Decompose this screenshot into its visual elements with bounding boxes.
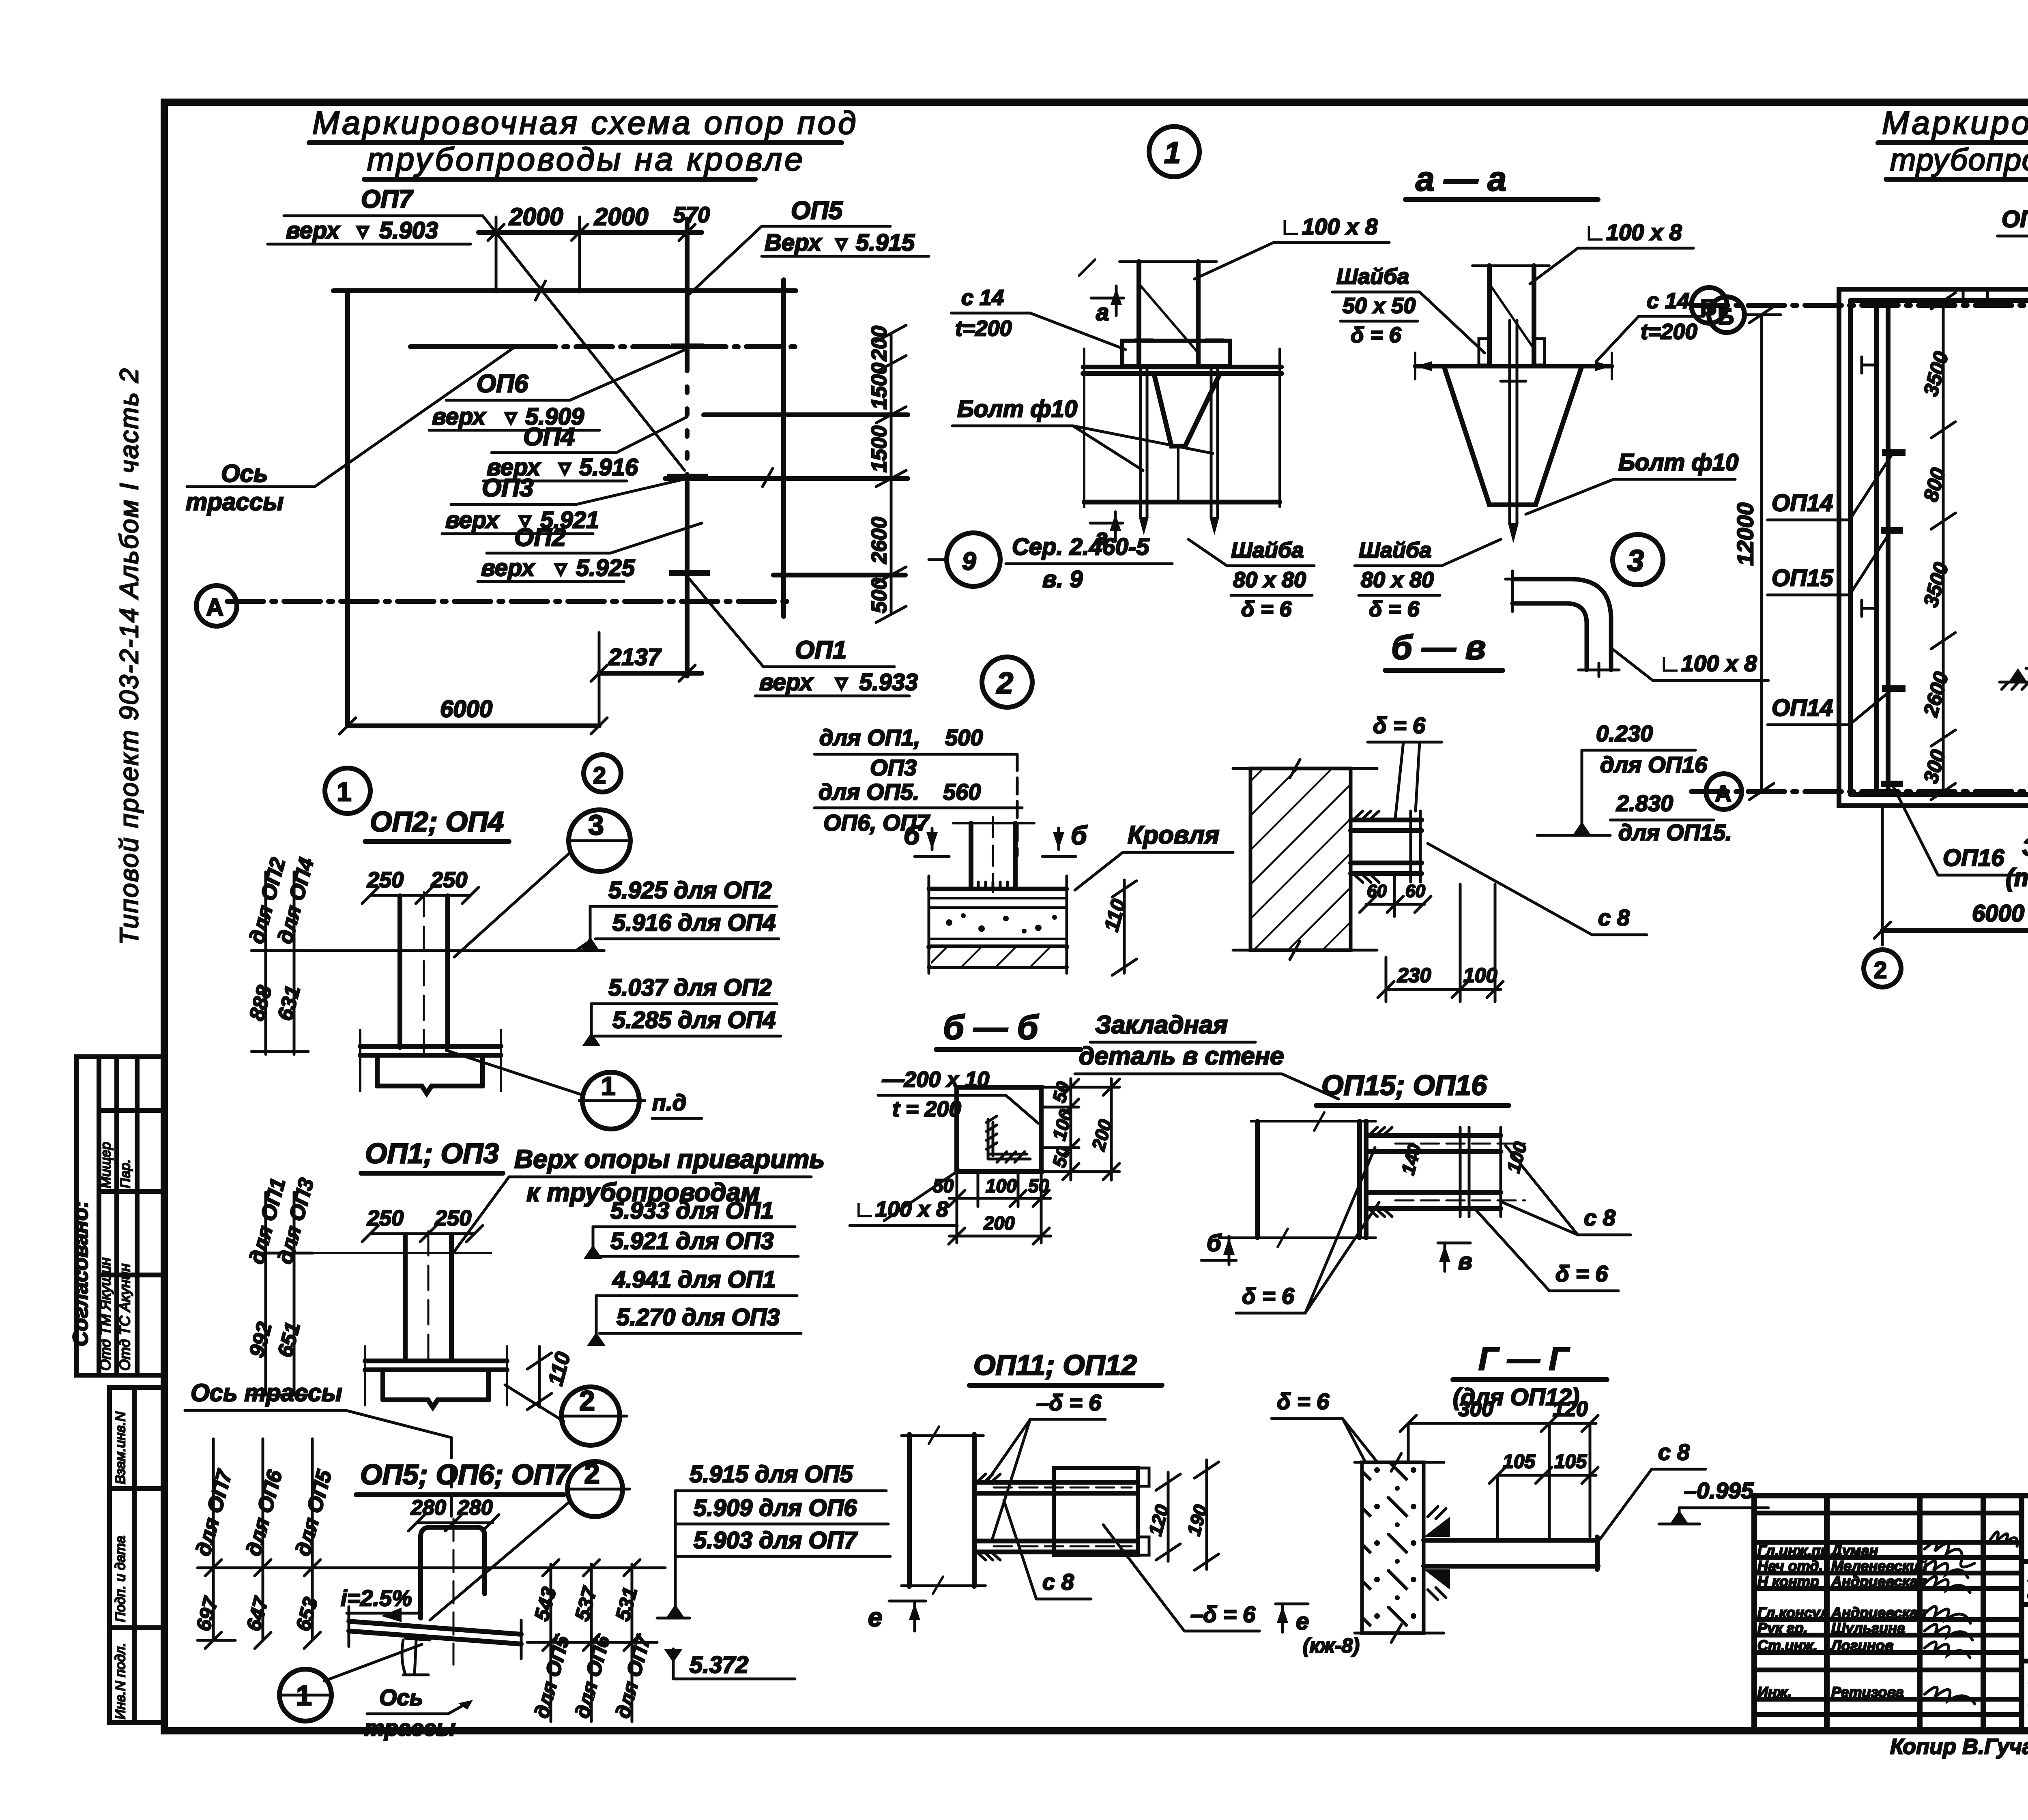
svg-text:5.921 для ОП3: 5.921 для ОП3 — [610, 1228, 774, 1254]
circle 9 marker — [947, 533, 1000, 586]
svg-text:▿: ▿ — [835, 669, 848, 695]
svg-text:А: А — [206, 594, 223, 621]
plates — [974, 1480, 1136, 1485]
svg-text:Взам.инв.N: Взам.инв.N — [113, 1411, 128, 1484]
svg-text:А: А — [1715, 781, 1731, 806]
svg-text:60: 60 — [1367, 881, 1387, 901]
svg-text:0.230: 0.230 — [1596, 721, 1653, 746]
svg-text:100: 100 — [1463, 964, 1497, 987]
svg-text:230: 230 — [1397, 964, 1431, 987]
svg-text:3: 3 — [1627, 544, 1644, 577]
svg-text:ОП11; ОП12: ОП11; ОП12 — [973, 1349, 1137, 1381]
svg-text:50: 50 — [1028, 1175, 1049, 1196]
dim 250 250 — [370, 1232, 475, 1235]
svg-text:(только для варианта с панельн: (только для варианта с панельными — [2006, 864, 2028, 892]
svg-text:Ось трассы: Ось трассы — [191, 1379, 342, 1406]
svg-text:(кж-8): (кж-8) — [1303, 1634, 1360, 1657]
left dim cols dlya OP7 OP6 OP5 — [212, 1439, 215, 1640]
weld ticks on base — [971, 882, 1015, 889]
svg-text:9: 9 — [962, 547, 976, 575]
bracket plates — [1366, 1133, 1501, 1138]
svg-text:5.372: 5.372 — [690, 1652, 748, 1678]
svg-text:б — в: б — в — [1391, 628, 1486, 666]
post OP1/OP3 — [313, 1231, 507, 1407]
pipe axis (os trassy) dash-dot — [410, 344, 519, 349]
dims 105 105 — [1497, 1474, 1596, 1477]
svg-text:2000: 2000 — [509, 203, 563, 230]
svg-text:б: б — [1207, 1230, 1222, 1256]
post OP5/6/7 — [421, 1519, 485, 1665]
svg-text:1500: 1500 — [868, 363, 891, 410]
svg-text:верх: верх — [432, 403, 487, 430]
svg-text:80 х 80: 80 х 80 — [1233, 568, 1306, 592]
svg-text:верх: верх — [445, 507, 500, 533]
svg-text:200: 200 — [868, 326, 891, 361]
svg-text:60: 60 — [1405, 881, 1425, 901]
svg-text:5.037 для ОП2: 5.037 для ОП2 — [608, 974, 772, 1001]
svg-text:δ = 6: δ = 6 — [1277, 1389, 1330, 1414]
svg-text:Кровля: Кровля — [1128, 821, 1219, 849]
svg-text:Типовой проект 903-2-14 Альб: Типовой проект 903-2-14 Альбом I часть 2 — [114, 367, 144, 945]
svg-text:∟100 х 8: ∟100 х 8 — [854, 1197, 948, 1221]
svg-text:2: 2 — [996, 666, 1013, 700]
svg-text:2600: 2600 — [868, 517, 891, 564]
svg-text:для ОП16: для ОП16 — [1600, 752, 1708, 777]
svg-text:250: 250 — [434, 1206, 471, 1230]
svg-text:для ОП5.: для ОП5. — [819, 779, 919, 805]
support bars on pipe — [667, 474, 708, 480]
dims 60 60 under bracket — [1366, 903, 1424, 906]
dim line 2000 2000 570 — [479, 230, 702, 235]
svg-text:Ретизова: Ретизова — [1831, 1684, 1904, 1700]
svg-text:▿: ▿ — [504, 403, 518, 430]
svg-text:1500: 1500 — [868, 425, 891, 472]
svg-text:δ = 6: δ = 6 — [1241, 597, 1292, 621]
svg-text:δ = 6: δ = 6 — [1373, 713, 1426, 738]
svg-text:t=200: t=200 — [1641, 320, 1697, 344]
svg-text:120: 120 — [1553, 1397, 1588, 1421]
svg-text:280: 280 — [457, 1496, 493, 1520]
svg-text:для ОП15.: для ОП15. — [1618, 820, 1732, 845]
svg-text:1: 1 — [337, 777, 352, 807]
svg-text:ОП16: ОП16 — [1943, 845, 2004, 871]
svg-text:Шульгина: Шульгина — [1831, 1620, 1905, 1636]
svg-text:2137: 2137 — [608, 644, 662, 670]
plate dims right chain 50 100 50 + 200 — [1041, 1079, 1119, 1180]
svg-text:2: 2 — [1874, 957, 1887, 983]
post OP2/OP4 — [308, 892, 604, 1093]
svg-text:Элемент плана 1 (КМ-9): Элемент плана 1 (КМ-9) — [2022, 833, 2028, 861]
svg-text:∟100 х 8: ∟100 х 8 — [1659, 650, 1757, 676]
svg-text:▿: ▿ — [356, 217, 370, 244]
svg-text:верх: верх — [286, 217, 341, 244]
svg-text:с 8: с 8 — [1658, 1439, 1690, 1465]
wall/column — [901, 1427, 1149, 1594]
svg-text:100: 100 — [986, 1175, 1017, 1196]
channel box — [1054, 1468, 1138, 1555]
svg-text:Верх опоры приварить: Верх опоры приварить — [514, 1144, 825, 1174]
sidebar: lower box — [110, 1387, 164, 1722]
weld corner symbol inside plate — [986, 1116, 1030, 1162]
svg-text:деталь в стене: деталь в стене — [1079, 1042, 1284, 1070]
svg-text:Гл.консул: Гл.консул — [1757, 1604, 1829, 1621]
svg-text:Б: Б — [1700, 294, 1716, 320]
svg-text:5.933 для ОП1: 5.933 для ОП1 — [610, 1198, 774, 1224]
svg-text:ОП6: ОП6 — [477, 370, 528, 398]
svg-text:105: 105 — [1503, 1451, 1536, 1472]
svg-text:ОП5: ОП5 — [791, 197, 843, 225]
svg-text:верх: верх — [481, 555, 536, 581]
bracket on wall — [1351, 811, 1422, 882]
svg-text:ОП2; ОП4: ОП2; ОП4 — [370, 806, 504, 837]
detail circle 1 big — [1149, 127, 1199, 177]
detail circle 3 — [584, 755, 621, 792]
section mark v right — [1438, 1242, 1470, 1245]
panel joints on left wall — [1862, 357, 1877, 616]
svg-text:280: 280 — [410, 1496, 446, 1520]
svg-text:ОП3: ОП3 — [870, 755, 917, 780]
svg-text:▿: ▿ — [558, 454, 571, 481]
I-beam mark below — [402, 1638, 430, 1675]
svg-text:δ = 6: δ = 6 — [1242, 1283, 1295, 1309]
dims 300 120 — [1408, 1422, 1596, 1425]
svg-text:5.915: 5.915 — [856, 230, 915, 256]
right dim cols 543 537 531 — [550, 1564, 552, 1721]
detail 1: column on beam — [1079, 260, 1282, 507]
plate dims bottom chain — [949, 1172, 1051, 1244]
roof section detail — [929, 817, 1067, 973]
svg-text:Мищер: Мищер — [98, 1142, 114, 1188]
svg-text:ОП1: ОП1 — [795, 636, 846, 664]
svg-text:t=200: t=200 — [955, 316, 1012, 341]
svg-text:Андриевская: Андриевская — [1831, 1604, 1927, 1621]
svg-text:2.830: 2.830 — [1616, 790, 1673, 816]
svg-text:с 8: с 8 — [1598, 905, 1630, 930]
svg-text:Гл.инж.пр: Гл.инж.пр — [1757, 1542, 1829, 1559]
svg-text:5.925: 5.925 — [576, 555, 635, 581]
svg-text:Рук гр.: Рук гр. — [1757, 1620, 1808, 1636]
svg-text:ОП15: ОП15 — [1772, 565, 1833, 591]
svg-text:105: 105 — [1554, 1451, 1587, 1472]
svg-text:–δ = 6: –δ = 6 — [1036, 1390, 1102, 1415]
svg-text:t = 200: t = 200 — [892, 1097, 961, 1121]
svg-text:трубопроводы на кровле: трубопроводы на кровле — [367, 141, 805, 177]
left dim col dlya OP2/OP4 888 631 — [264, 872, 267, 1054]
support marks left wall — [1882, 449, 1906, 456]
svg-text:250: 250 — [367, 868, 404, 892]
svg-text:570: 570 — [673, 203, 710, 227]
svg-text:δ = 6: δ = 6 — [1351, 323, 1402, 347]
wire: right horizontals — [704, 412, 908, 417]
axis circles 2 3 4 — [1864, 950, 1901, 987]
svg-text:200: 200 — [983, 1213, 1015, 1234]
dim 110 — [538, 1346, 541, 1407]
svg-text:5.270 для ОП3: 5.270 для ОП3 — [617, 1304, 780, 1331]
dim 6000 6000 bottom — [1882, 928, 2028, 933]
svg-text:5.933: 5.933 — [859, 669, 918, 695]
svg-text:12000: 12000 — [1732, 502, 1758, 566]
svg-text:▿: ▿ — [835, 230, 848, 256]
svg-text:б: б — [1071, 821, 1088, 850]
detail circle 2 big — [982, 657, 1032, 707]
svg-text:Андриевская: Андриевская — [1831, 1573, 1927, 1590]
sidebar: soglasovano box — [76, 1057, 164, 1375]
svg-text:в. 9: в. 9 — [1042, 566, 1083, 592]
detail circle 2 lower — [561, 1387, 620, 1445]
svg-text:с 14: с 14 — [961, 285, 1004, 310]
svg-text:∟100 х 8: ∟100 х 8 — [1584, 219, 1682, 245]
elevation 5.372 — [664, 1649, 683, 1663]
svg-text:–δ = 6: –δ = 6 — [1190, 1601, 1256, 1627]
svg-text:Копир В.Гуча-: Копир В.Гуча- — [1890, 1734, 2028, 1759]
svg-text:5.916: 5.916 — [579, 454, 638, 481]
svg-text:трубопроводы в осях „А÷Б” и: трубопроводы в осях „А÷Б” и „2÷4” — [1890, 143, 2028, 177]
axis A dash-dot — [1691, 789, 2028, 794]
dims 120 190 — [1167, 1472, 1170, 1561]
detail circle 1 p.d — [582, 1072, 639, 1129]
svg-text:ОП14: ОП14 — [1772, 695, 1833, 721]
bolts detail 1 — [1135, 340, 1223, 517]
svg-text:δ = 6: δ = 6 — [1369, 597, 1420, 621]
svg-text:Шайба: Шайба — [1231, 538, 1304, 562]
signatures squiggles — [1925, 1532, 2017, 1704]
level line — [198, 1567, 665, 1569]
svg-text:Закладная: Закладная — [1095, 1011, 1228, 1039]
svg-text:Г — Г: Г — Г — [1478, 1341, 1570, 1377]
svg-text:80 х 80: 80 х 80 — [1361, 568, 1434, 592]
svg-text:для ОП1,: для ОП1, — [819, 725, 920, 750]
axis B dash-dot — [1691, 303, 2028, 308]
svg-text:Подп. и дата: Подп. и дата — [113, 1536, 128, 1622]
svg-text:2: 2 — [584, 1458, 600, 1489]
svg-text:трассы: трассы — [186, 488, 284, 515]
detail circle 2 — [567, 1462, 623, 1517]
svg-text:2000: 2000 — [594, 203, 648, 230]
svg-text:ОП4: ОП4 — [523, 423, 575, 451]
svg-text:с 14: с 14 — [1647, 289, 1689, 313]
svg-text:ОП5; ОП6; ОП7: ОП5; ОП6; ОП7 — [360, 1459, 571, 1490]
svg-text:Отд ТМ Якушин: Отд ТМ Якушин — [97, 1258, 114, 1371]
svg-text:Ось: Ось — [221, 460, 268, 487]
svg-text:Верх: Верх — [765, 230, 823, 256]
detail circle 3 big — [1613, 534, 1663, 585]
center bolt a-a — [1501, 320, 1526, 523]
svg-text:Болт ф10: Болт ф10 — [1618, 449, 1738, 476]
svg-text:Маркировочная схема опор по: Маркировочная схема опор под — [312, 105, 859, 141]
svg-text:5.903 для ОП7: 5.903 для ОП7 — [694, 1527, 858, 1554]
svg-text:Ось: Ось — [379, 1685, 423, 1710]
plan walls outer — [1839, 289, 2028, 806]
svg-text:250: 250 — [367, 1206, 404, 1230]
svg-text:Пар.: Пар. — [118, 1159, 133, 1188]
svg-text:5.915 для ОП5: 5.915 для ОП5 — [690, 1461, 853, 1487]
svg-text:6000: 6000 — [1972, 900, 2024, 927]
concrete wall — [1362, 1462, 1424, 1633]
svg-text:50 х 50: 50 х 50 — [1343, 294, 1416, 318]
svg-text:ОП3: ОП3 — [482, 474, 533, 502]
svg-text:е: е — [868, 1603, 883, 1632]
svg-text:2: 2 — [579, 1385, 595, 1417]
svg-text:в: в — [1458, 1248, 1472, 1275]
svg-text:Болт ф10: Болт ф10 — [957, 396, 1077, 422]
svg-text:5.903: 5.903 — [379, 217, 438, 244]
svg-text:Нач отд.: Нач отд. — [1757, 1558, 1823, 1574]
svg-text:верх: верх — [759, 669, 814, 695]
svg-text:Инв.N подл.: Инв.N подл. — [113, 1643, 128, 1719]
svg-text:Инж.: Инж. — [1757, 1684, 1792, 1700]
vertical axis 2 partial — [781, 280, 786, 616]
detail circle 1 — [279, 1669, 331, 1721]
vertical axis 1 — [345, 292, 350, 726]
axis A dash-dot long — [227, 599, 795, 604]
svg-text:трассы: трассы — [364, 1715, 455, 1741]
svg-text:500: 500 — [868, 578, 891, 613]
svg-text:ОП13: ОП13 — [2002, 206, 2028, 232]
svg-text:б — б: б — б — [943, 1008, 1039, 1046]
svg-text:а: а — [1096, 299, 1109, 326]
left dim col dlya OP1/OP3 992 651 — [264, 1192, 267, 1395]
svg-text:2: 2 — [593, 762, 606, 789]
svg-text:6000: 6000 — [440, 696, 492, 722]
svg-text:50: 50 — [933, 1175, 954, 1196]
svg-text:5.909 для ОП6: 5.909 для ОП6 — [694, 1495, 857, 1521]
dim 280 280 — [417, 1522, 493, 1524]
svg-text:1: 1 — [601, 1071, 616, 1101]
svg-text:е: е — [1296, 1608, 1309, 1635]
svg-text:ОП7: ОП7 — [361, 185, 414, 213]
svg-text:Шайба: Шайба — [1336, 264, 1409, 289]
svg-text:ОП15; ОП16: ОП15; ОП16 — [1321, 1069, 1487, 1101]
svg-text:∟100 х 8: ∟100 х 8 — [1280, 214, 1378, 239]
svg-text:а — а: а — а — [1416, 160, 1506, 198]
svg-text:Отд ТС Акунин: Отд ТС Акунин — [116, 1264, 133, 1371]
svg-text:5.916 для ОП4: 5.916 для ОП4 — [612, 910, 776, 936]
svg-text:4.941 для ОП1: 4.941 для ОП1 — [612, 1266, 776, 1293]
svg-text:Шайба: Шайба — [1359, 538, 1431, 562]
svg-text:δ = 6: δ = 6 — [1555, 1261, 1608, 1286]
svg-text:ОП14: ОП14 — [1772, 490, 1833, 516]
svg-text:п.д: п.д — [652, 1090, 686, 1115]
svg-text:i=2.5%: i=2.5% — [341, 1585, 412, 1611]
vertical dim 12000 — [1760, 315, 1763, 792]
dim 250 250 top — [370, 894, 470, 897]
svg-text:Маркировочная схема опор по: Маркировочная схема опор под — [1882, 105, 2028, 141]
axis circle B (a-a) — [1709, 297, 1744, 333]
svg-text:с 8: с 8 — [1584, 1205, 1616, 1230]
inner panel line left — [1874, 300, 1879, 794]
svg-text:250: 250 — [430, 868, 467, 892]
svg-text:ОП2: ОП2 — [514, 524, 566, 552]
vert dim chain x4791 — [1942, 301, 1945, 792]
svg-text:ОП1; ОП3: ОП1; ОП3 — [365, 1137, 499, 1169]
dim 230 100 — [1386, 988, 1501, 991]
svg-text:Сер. 2.460-5: Сер. 2.460-5 — [1012, 534, 1149, 560]
svg-text:б: б — [904, 821, 921, 850]
svg-text:▿: ▿ — [554, 555, 567, 581]
grid line top (axis 1-2 horizontal) — [333, 288, 796, 293]
svg-text:Ст.инж.: Ст.инж. — [1757, 1637, 1817, 1654]
svg-text:с 8: с 8 — [1042, 1569, 1074, 1595]
svg-text:5.925 для ОП2: 5.925 для ОП2 — [608, 877, 772, 904]
vertical pipe line — [685, 219, 690, 365]
svg-text:3: 3 — [588, 809, 604, 841]
svg-text:Н контр: Н контр — [1757, 1573, 1819, 1590]
svg-text:Меленевский: Меленевский — [1831, 1558, 1927, 1574]
beam — [1424, 1538, 1598, 1543]
svg-text:5.285 для ОП4: 5.285 для ОП4 — [612, 1007, 776, 1033]
right vertical dim chain — [890, 333, 893, 614]
svg-text:Логинов: Логинов — [1830, 1637, 1893, 1654]
wall notches top — [1963, 289, 1987, 300]
svg-text:–0.995: –0.995 — [1684, 1478, 1754, 1503]
svg-text:300: 300 — [1458, 1397, 1493, 1421]
svg-text:Согласовано:: Согласовано: — [69, 1201, 92, 1346]
dim 110 roof — [1123, 880, 1126, 973]
svg-text:500: 500 — [945, 725, 983, 750]
svg-text:560: 560 — [943, 779, 981, 805]
svg-text:1: 1 — [1164, 136, 1181, 170]
node axis circle 1 — [325, 768, 370, 813]
svg-text:Думан: Думан — [1830, 1542, 1878, 1559]
node axis circle A — [196, 586, 237, 626]
